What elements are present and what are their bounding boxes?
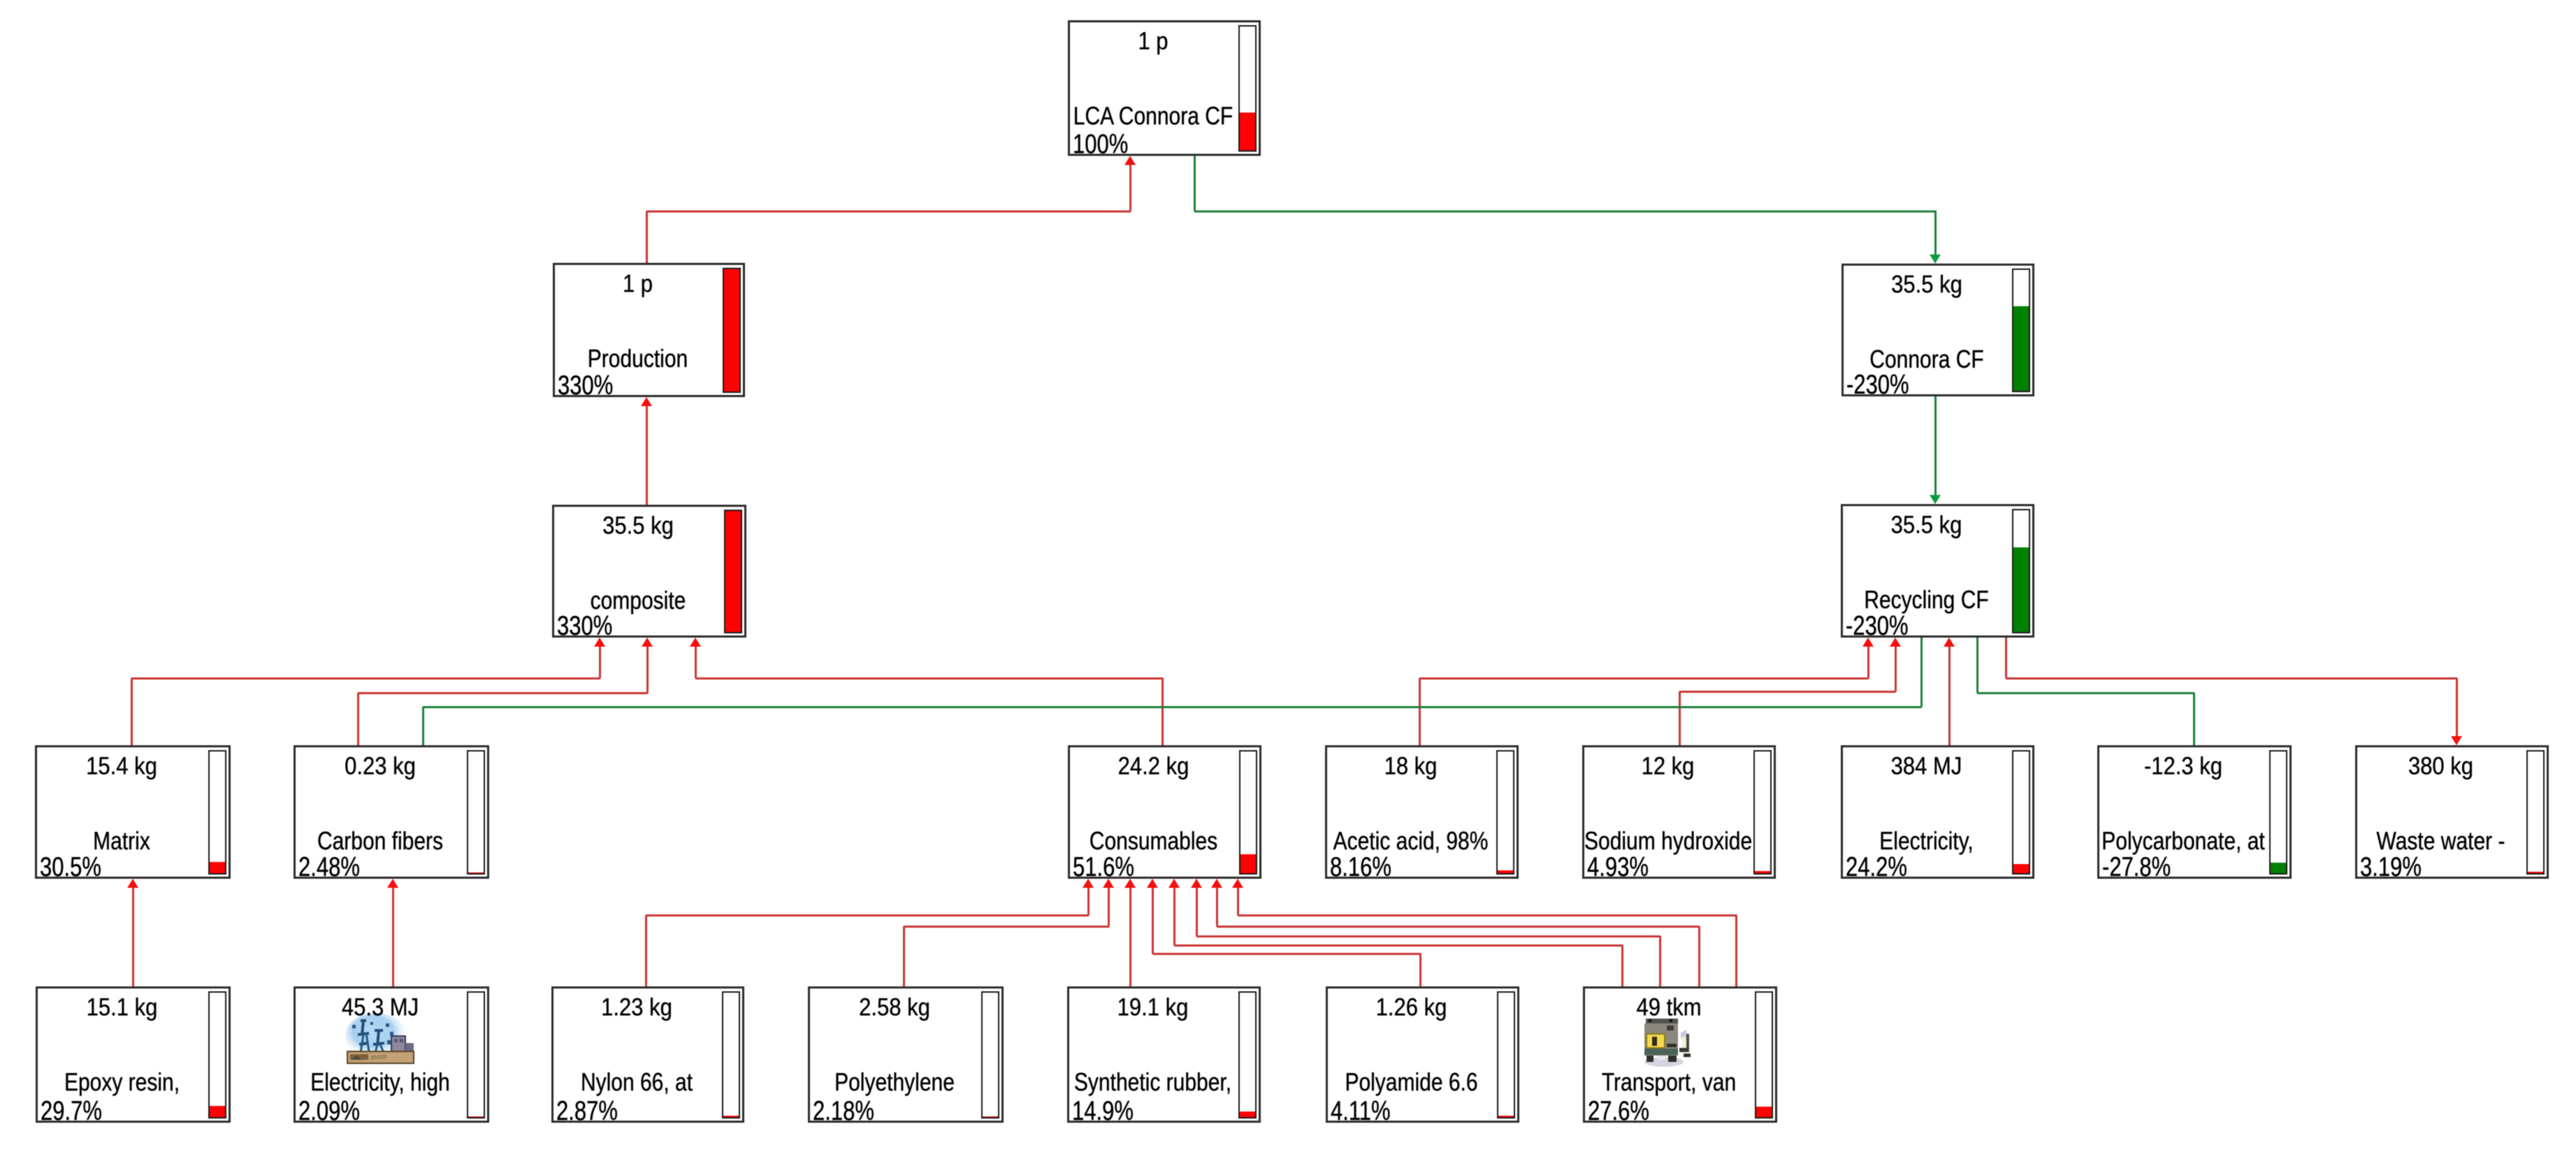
process box Polyethylene (2.58 kg, 2.18%) <box>808 986 1004 1123</box>
process box LCA Connora CF (1 p, 100%) <box>1068 20 1261 156</box>
wire Synthetic rubber to Consumables <box>0 0 2576 1</box>
wire Nylon 66 to Consumables <box>0 0 2576 1</box>
process box Electricity, high (45.3 MJ, 2.09%) <box>294 986 489 1123</box>
wire LCA Connora CF to Connora CF (green) <box>0 0 2576 1</box>
wire Production to LCA Connora CF <box>0 0 2576 1</box>
wire Epoxy resin to Matrix <box>0 0 2576 1</box>
wire Electricity to Recycling CF <box>0 0 2576 1</box>
wire Transport van to Consumables 4 <box>0 0 2576 1</box>
process box Synthetic rubber, (19.1 kg, 14.9%) <box>1067 986 1261 1123</box>
wire Transport van to Consumables 2 <box>0 0 2576 1</box>
wire Sodium hydroxide to Recycling CF <box>0 0 2576 1</box>
process box composite (35.5 kg, 330%) <box>552 505 746 638</box>
process box Carbon fibers (0.23 kg, 2.48%) <box>294 745 489 879</box>
wire Carbon fibers to composite <box>0 0 2576 1</box>
process box Sodium hydroxide (12 kg, 4.93%) <box>1582 745 1776 879</box>
wire Connora CF to Recycling CF (green) <box>0 0 2576 1</box>
process box Production (1 p, 330%) <box>553 263 745 397</box>
process box Transport, van (49 tkm, 27.6%) <box>1583 986 1777 1123</box>
process box Polyamide 6.6 (1.26 kg, 4.11%) <box>1326 986 1519 1123</box>
process box Nylon 66, at (1.23 kg, 2.87%) <box>551 986 744 1123</box>
wire Acetic acid to Recycling CF <box>0 0 2576 1</box>
wire Recycling CF to Carbon fibers (green) <box>0 0 2576 1</box>
process box Epoxy resin, (15.1 kg, 29.7%) <box>36 986 231 1123</box>
wire Recycling CF to Polycarbonate (green) <box>0 0 2576 1</box>
process box Recycling CF (35.5 kg, -230%) <box>1841 504 2034 638</box>
wire Electricity high to Carbon fibers <box>0 0 2576 1</box>
process box Consumables (24.2 kg, 51.6%) <box>1068 745 1261 879</box>
wire Transport van to Consumables 3 <box>0 0 2576 1</box>
process box Acetic acid, 98% (18 kg, 8.16%) <box>1325 745 1519 879</box>
wire Transport van to Consumables 1 <box>0 0 2576 1</box>
wire Consumables to composite <box>0 0 2576 1</box>
wire Polyethylene to Consumables <box>0 0 2576 1</box>
wire Recycling CF to Waste water <box>0 0 2576 1</box>
process box Waste water - (380 kg, 3.19%) <box>2355 745 2549 879</box>
wire Matrix to composite <box>0 0 2576 1</box>
process box Matrix (15.4 kg, 30.5%) <box>35 745 231 879</box>
wire Polyamide 6.6 to Consumables <box>0 0 2576 1</box>
process box Connora CF (35.5 kg, -230%) <box>1841 264 2034 396</box>
process box Polycarbonate, at (-12.3 kg, -27.8%) <box>2097 745 2292 879</box>
wire composite to Production <box>0 0 2576 1</box>
process box Electricity, (384 MJ, 24.2%) <box>1841 745 2034 879</box>
